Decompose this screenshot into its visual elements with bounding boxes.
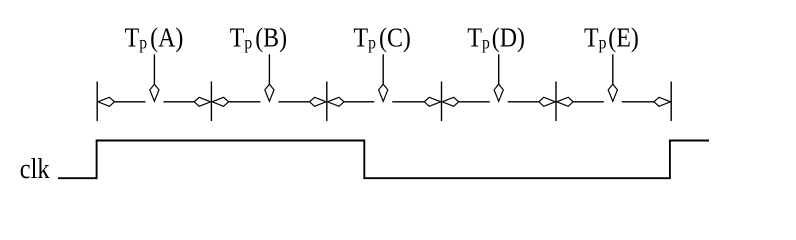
svg-text:Tp(D): Tp(D) [467,22,525,53]
label Tp(C) [354,22,411,53]
label Tp(A) [125,22,184,53]
dimension line A right part [163,101,194,103]
dimension line A left part [114,101,145,103]
dimension line B right part [278,101,309,103]
right arrowhead of dimension D [539,97,556,106]
down arrowhead C [379,84,388,101]
svg-text:clk: clk [20,152,50,184]
right arrowhead of dimension E [654,97,671,106]
left arrowhead of dimension B [212,97,229,106]
tick mark 6 [670,82,672,122]
dimension line D right part [508,101,539,103]
pointer line from label A [153,54,155,84]
pointer line from label C [382,54,384,84]
left arrowhead of dimension D [442,97,459,106]
dimension line C right part [392,101,424,103]
pointer line from label E [612,54,614,84]
dimension line C left part [344,101,374,103]
dimension line B left part [229,101,261,103]
tick mark 5 [555,82,557,122]
dimension line E right part [622,101,654,103]
down arrowhead E [608,84,617,101]
tick mark 1 [96,82,98,122]
dimension line E left part [573,101,604,103]
left arrowhead of dimension E [557,97,574,106]
label Tp(E) [584,22,639,53]
pointer line from label B [268,54,270,84]
clk waveform [58,141,709,179]
label Tp(B) [230,22,287,53]
clk signal label [20,152,50,184]
svg-text:Tp(E): Tp(E) [584,22,639,53]
down arrowhead D [494,84,503,101]
left arrowhead of dimension A [98,97,115,106]
right arrowhead of dimension C [424,97,441,106]
right arrowhead of dimension A [194,97,211,106]
svg-text:Tp(C): Tp(C) [354,22,411,53]
right arrowhead of dimension B [310,97,327,106]
label Tp(D) [467,22,525,53]
left arrowhead of dimension C [328,97,345,106]
tick mark 3 [326,82,328,122]
down arrowhead A [150,84,159,101]
down arrowhead B [265,84,274,101]
svg-text:Tp(B): Tp(B) [230,22,287,53]
tick mark 2 [210,82,212,122]
dimension line D left part [459,101,490,103]
svg-text:Tp(A): Tp(A) [125,22,184,53]
pointer line from label D [498,54,500,84]
tick mark 4 [441,82,443,122]
